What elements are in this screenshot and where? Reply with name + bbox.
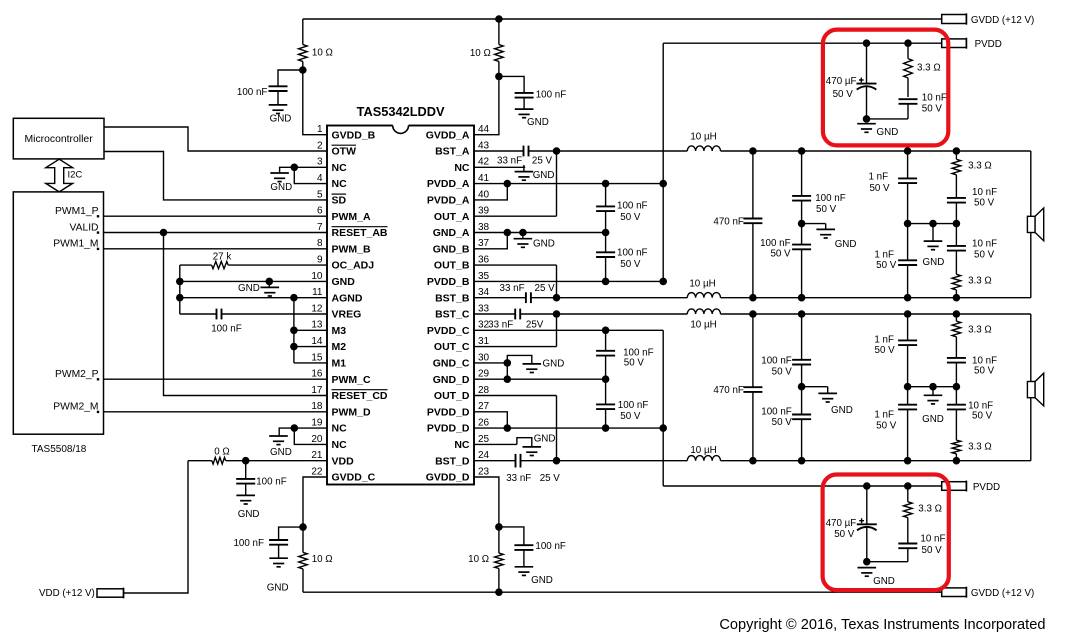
label 100 nF 50 V (GND-PVDD_B) (617, 248, 648, 271)
ground (GND_A/GND_B) (514, 233, 555, 250)
pin 43 BST_A (435, 140, 489, 157)
label PVDD bottom (973, 482, 1000, 493)
node BST_D junction (553, 457, 561, 465)
svg-text:GND: GND (533, 239, 555, 250)
svg-text:5: 5 (317, 189, 323, 200)
label 33 nF 25 V (BST_A) (497, 156, 552, 167)
TAS5508/18 box (13, 192, 103, 434)
wire OUT_C pin 31 (474, 346, 557, 348)
pin 8 PWM_B (317, 238, 371, 255)
svg-text:11: 11 (312, 287, 323, 298)
wire GVDD +12V top rail (303, 18, 942, 20)
resistor 3.3 Ω (OUT_A zobel) (952, 151, 961, 198)
pin 35 PVDD_B (427, 271, 490, 288)
svg-text:GND: GND (332, 276, 356, 288)
svg-text:30: 30 (478, 352, 490, 363)
pin 2 OTW (317, 140, 356, 157)
svg-text:BST_B: BST_B (435, 292, 470, 304)
svg-text:17: 17 (311, 385, 323, 396)
node GND_C tie (504, 359, 512, 367)
svg-text:50 V: 50 V (875, 345, 896, 356)
resistor 3.3 Ω (OUT_C zobel) (952, 314, 961, 358)
svg-text:VDD (+12 V): VDD (+12 V) (39, 588, 95, 599)
op-amp U1 TAS5342LDDV body (327, 126, 474, 485)
label 10 nF 50 V (OUT_C zobel) (972, 356, 997, 377)
svg-text:PWM1_P: PWM1_P (55, 206, 99, 217)
svg-text:25V: 25V (526, 320, 544, 331)
node OUT_C 470nF (749, 310, 757, 318)
svg-text:1 nF: 1 nF (874, 250, 894, 261)
svg-text:26: 26 (478, 418, 490, 429)
resistor 3.3 Ω (OUT_D zobel) (952, 440, 961, 461)
pin 3 NC (317, 157, 347, 174)
wire GND_D pin 29 (474, 378, 606, 380)
wire speaker A/B bottom (1030, 233, 1032, 298)
wire VALID to RESET_CD pin 17 (164, 233, 328, 396)
svg-text:PVDD_A: PVDD_A (427, 178, 470, 190)
svg-text:AGND: AGND (332, 292, 363, 304)
inductor 10 µH (OUT_D) (557, 456, 1031, 461)
node PVDD_B mid-cap tap (602, 278, 610, 286)
svg-text:NC: NC (454, 439, 470, 451)
microcontroller box (13, 118, 104, 159)
node GND_D mid-cap tap (602, 375, 610, 383)
node 1nF mid (C/D) (904, 383, 912, 391)
pin 22 GVDD_C (311, 466, 375, 483)
ground (pin 42) (515, 170, 555, 181)
pin 44 GVDD_A (426, 124, 490, 141)
wire PVDD_D pin 27 tie (474, 412, 507, 428)
svg-text:GND: GND (238, 283, 260, 294)
svg-text:50 V: 50 V (869, 183, 890, 194)
svg-text:100 nF: 100 nF (815, 193, 846, 204)
label 100 nF (GVDD_A) (536, 90, 567, 101)
wire PVDD vertical bottom (662, 330, 664, 486)
svg-text:10 nF: 10 nF (972, 239, 997, 250)
node GND tap pin 10 (266, 278, 274, 286)
ground (A/B filter mid) (802, 224, 857, 250)
wire M3 pin 13 (294, 329, 327, 331)
node GVDD rail / GVDD_A resistor tap (495, 15, 503, 23)
svg-text:1: 1 (317, 124, 323, 135)
wire GVDD bottom rail (303, 591, 942, 593)
node M2 (290, 343, 298, 351)
label 100 nF (VREG) (211, 324, 242, 335)
label 100 nF (GVDD_B) (237, 87, 268, 98)
svg-text:GND: GND (877, 127, 899, 138)
label 1 nF 50 V (OUT_D) (874, 410, 896, 432)
wire speaker C/D bottom (1030, 398, 1032, 461)
svg-text:50 V: 50 V (624, 358, 645, 369)
svg-text:M3: M3 (332, 325, 347, 337)
svg-text:3.3 Ω: 3.3 Ω (968, 276, 992, 287)
ground (VDD cap) (236, 495, 259, 520)
svg-text:GND_C: GND_C (433, 358, 470, 370)
label 10 Ω (GVDD_A) (470, 48, 491, 59)
label 10 µH (OUT_C) (690, 319, 716, 330)
svg-text:10 nF: 10 nF (920, 534, 945, 545)
terminal GVDD (+12 V) top (942, 13, 967, 24)
node mid ground tap (C/D) (929, 383, 937, 391)
node M3 (290, 327, 298, 335)
svg-text:100 nF: 100 nF (618, 400, 649, 411)
ground (pin 25) (517, 434, 556, 456)
label 470 nF (A/B) (713, 217, 744, 228)
node PVDD_D mid-cap tap (602, 424, 610, 432)
capacitor 100 nF 50 V (OUT_A) (792, 151, 811, 224)
svg-text:100 nF: 100 nF (237, 87, 268, 98)
svg-text:50 V: 50 V (974, 250, 995, 261)
svg-text:1 nF: 1 nF (874, 410, 894, 421)
pin 32 PVDD_C (427, 320, 490, 337)
capacitor 100 nF (GVDD_D) (499, 527, 534, 567)
svg-text:PWM2_P: PWM2_P (55, 369, 99, 380)
node 3.3Ω top tap (904, 39, 912, 47)
pin 27 PVDD_D (427, 401, 490, 418)
svg-text:GND: GND (267, 583, 289, 594)
node 1nF mid (A/B) (904, 220, 912, 228)
capacitor 100 nF (VREG) (180, 309, 327, 320)
resistor 10 Ω (GVDD_B) (299, 19, 308, 70)
node GVDD_C branch (299, 523, 307, 531)
svg-text:33 nF: 33 nF (506, 473, 531, 484)
node RC mid (A/B) (953, 220, 961, 228)
pin 41 PVDD_A (427, 173, 490, 190)
capacitor 33 nF 25 V (BST_D) (474, 454, 557, 468)
ground (GND_C) (507, 355, 564, 372)
svg-text:10 Ω: 10 Ω (470, 48, 491, 59)
wire speaker C/D top (1030, 314, 1032, 382)
svg-text:2: 2 (317, 140, 323, 151)
svg-text:GND_B: GND_B (433, 243, 470, 255)
svg-text:PWM_A: PWM_A (332, 211, 372, 223)
label 33 nF 25 V (BST_B) (500, 283, 556, 294)
svg-text:GND: GND (270, 114, 292, 125)
terminal PVDD top (942, 38, 967, 49)
node GND_A ground tap (519, 229, 527, 237)
svg-text:100 nF: 100 nF (211, 324, 242, 335)
ground (GVDD_D cap) (515, 567, 553, 586)
svg-text:GVDD_A: GVDD_A (426, 129, 470, 141)
node mid ground tap (A/B) (929, 220, 937, 228)
svg-text:8: 8 (317, 238, 323, 249)
svg-text:15: 15 (311, 352, 323, 363)
svg-text:3.3 Ω: 3.3 Ω (968, 161, 992, 172)
svg-text:TAS5342LDDV: TAS5342LDDV (357, 104, 445, 119)
svg-text:100 nF: 100 nF (761, 406, 792, 417)
node OUT_D 100nF (798, 457, 806, 465)
svg-text:25: 25 (478, 434, 490, 445)
svg-text:39: 39 (478, 206, 490, 217)
capacitor 10 nF 50 V (OUT_D zobel) (947, 387, 966, 441)
wire GVDD_A to pin 44 (474, 76, 499, 134)
svg-text:OTW: OTW (332, 146, 357, 158)
node GND_D tie (504, 375, 512, 383)
svg-text:PWM1_M: PWM1_M (53, 239, 98, 250)
svg-text:PVDD_D: PVDD_D (427, 406, 470, 418)
svg-text:GND: GND (922, 414, 944, 425)
highlight box (PVDD decoupling top) (823, 30, 948, 146)
node OUT_C RC (953, 310, 961, 318)
svg-text:23: 23 (478, 466, 490, 477)
svg-text:TAS5508/18: TAS5508/18 (32, 444, 87, 455)
capacitor 33 nF 25 V (BST_B) (474, 292, 557, 303)
pin 39 OUT_A (434, 206, 490, 223)
wire PWM2_P to pin 16 (104, 378, 328, 380)
node OUT_C 100nF (798, 310, 806, 318)
label 10 Ω (GVDD_C) (312, 554, 333, 565)
resistor 3.3 Ω (OUT_B zobel) (952, 274, 961, 297)
label 470 µF (top) (826, 76, 857, 100)
pin 6 PWM_A (317, 206, 371, 223)
svg-text:10 Ω: 10 Ω (312, 48, 333, 59)
pin 26 PVDD_D (427, 418, 490, 435)
wire VDD to connector (124, 461, 189, 593)
svg-text:50 V: 50 V (833, 89, 854, 100)
node RC mid (C/D) (953, 383, 961, 391)
svg-text:1 nF: 1 nF (868, 172, 888, 183)
svg-text:16: 16 (311, 369, 323, 380)
label 33 nF 25 V (BST_D) (506, 473, 560, 484)
svg-text:GND: GND (543, 358, 565, 369)
svg-text:100 nF: 100 nF (536, 90, 567, 101)
label 100 nF 50 V (OUT_A) (815, 193, 846, 215)
capacitor 100 nF 50 V (PVDD_A-GND) (596, 184, 615, 233)
capacitor 33 nF 25V (BST_C) (474, 309, 557, 320)
svg-text:PVDD: PVDD (973, 482, 1000, 493)
node OUT_A RC (953, 147, 961, 155)
capacitor 100 nF 50 V (OUT_C) (792, 314, 811, 387)
svg-text:38: 38 (478, 222, 490, 233)
svg-text:43: 43 (478, 140, 490, 151)
ground (pin 10) (238, 281, 279, 296)
svg-text:3.3 Ω: 3.3 Ω (968, 442, 992, 453)
wire OUT_C to BST_C (556, 314, 558, 347)
capacitor 470 nF (A/B) (743, 151, 762, 298)
label PWM2_M (53, 402, 99, 414)
label TAS5342LDDV (357, 104, 445, 119)
svg-text:GND: GND (835, 239, 857, 250)
capacitor 100 nF 50 V (GND-PVDD_B) (596, 233, 615, 282)
svg-text:OUT_B: OUT_B (434, 260, 470, 272)
label 100 nF 50 V (GND-PVDD_D) (618, 400, 649, 422)
svg-text:GND_A: GND_A (433, 227, 470, 239)
wire GND_C pin 30 tie (474, 363, 507, 379)
node 470µF top bottom (863, 115, 871, 123)
label 470 µF (bottom) (826, 518, 857, 540)
svg-text:18: 18 (311, 401, 323, 412)
ground (GVDD_A cap) (515, 109, 549, 128)
svg-text:VDD: VDD (332, 455, 355, 467)
svg-text:100 nF: 100 nF (617, 201, 648, 212)
svg-text:470 nF: 470 nF (713, 385, 744, 396)
svg-text:33 nF: 33 nF (488, 320, 513, 331)
wire PWM2_M to pin 18 (104, 411, 328, 413)
pin 23 GVDD_D (426, 466, 490, 483)
node OUT_A 1nF (904, 147, 912, 155)
node pin10 left (176, 278, 184, 286)
wire PVDD_D pin 26 (474, 427, 663, 429)
wire 470µF/10nF bottom tie (bottom) (867, 561, 908, 563)
inductor 10 µH (OUT_B) (557, 293, 1031, 298)
svg-text:12: 12 (311, 303, 323, 314)
pin 42 NC (454, 157, 489, 174)
capacitor 33 nF 25 V (BST_A) (474, 146, 557, 157)
svg-text:4: 4 (317, 173, 323, 184)
svg-text:20: 20 (311, 434, 323, 445)
label PWM1_P (55, 206, 99, 218)
svg-text:27 k: 27 k (213, 251, 232, 262)
ground (A/B mid RC) (923, 224, 945, 268)
svg-text:GND: GND (527, 117, 549, 128)
label 100 nF (GVDD_C) (233, 538, 264, 549)
wire GND_B pin 37 tie (474, 233, 507, 249)
wire OUT_B to BST_B (556, 265, 558, 298)
label 33 nF 25V (BST_C) (488, 320, 544, 331)
pin 1 GVDD_B (317, 124, 376, 141)
pin 37 GND_B (433, 238, 490, 255)
svg-text:10 µH: 10 µH (690, 132, 716, 143)
label 3.3 Ω (OUT_A zobel) (968, 161, 992, 172)
wire M2 pin 14 (294, 346, 327, 348)
svg-text:50 V: 50 V (620, 212, 641, 223)
node NC pins 19/20 (291, 424, 299, 432)
wire OUT_D pin 28 (474, 395, 557, 397)
svg-text:GVDD_C: GVDD_C (332, 472, 376, 484)
speaker (channel A/B) (1027, 208, 1043, 241)
capacitor 10 nF 50 V (top snubber) (899, 99, 918, 119)
label VALID (70, 222, 100, 233)
svg-text:GND: GND (238, 509, 260, 520)
capacitor 470 nF (C/D) (743, 314, 762, 461)
svg-text:41: 41 (478, 173, 490, 184)
svg-text:PWM_D: PWM_D (332, 406, 372, 418)
label 3.3 Ω (OUT_B zobel) (968, 276, 992, 287)
pin 12 VREG (311, 303, 361, 320)
svg-text:9: 9 (317, 255, 323, 266)
svg-text:M2: M2 (332, 341, 347, 353)
label 3.3 Ω (bottom snubber) (918, 504, 942, 515)
label 10 µH (OUT_A) (690, 132, 716, 143)
pin 4 NC (317, 173, 347, 190)
svg-text:100 nF: 100 nF (256, 476, 287, 487)
svg-text:GND: GND (531, 575, 553, 586)
node PVDD_A tie (504, 180, 512, 188)
wire GVDD_C (303, 477, 327, 527)
capacitor 100 nF (GVDD_A) (499, 76, 534, 109)
svg-text:10 nF: 10 nF (972, 187, 997, 198)
wire PVDD bottom rail (663, 485, 942, 487)
pin 20 NC (311, 434, 347, 451)
capacitor 100 nF (GVDD_C) (269, 527, 303, 558)
svg-text:10 Ω: 10 Ω (312, 554, 333, 565)
pin 16 PWM_C (311, 369, 371, 386)
node 100nF mid (C/D) (798, 383, 806, 391)
ground (GVDD_B cap) (269, 105, 292, 125)
node OUT_A 470nF (749, 147, 757, 155)
svg-text:36: 36 (478, 255, 490, 266)
pin 14 M2 (311, 336, 346, 353)
node VDD cap tap (242, 457, 250, 465)
node GND_A tie (504, 229, 512, 237)
label 3.3 Ω (OUT_C zobel) (968, 325, 992, 336)
svg-text:BST_D: BST_D (435, 455, 470, 467)
wire BST_A to OUT_A (556, 151, 558, 216)
ground (top PVDD decoupling) (857, 124, 898, 138)
svg-text:Copyright © 2016, Texas Instru: Copyright © 2016, Texas Instruments Inco… (719, 617, 1045, 633)
I2C double arrow (46, 159, 73, 192)
svg-text:50 V: 50 V (922, 545, 943, 556)
ground (pins 3/4) (270, 167, 294, 193)
svg-text:470 nF: 470 nF (713, 217, 744, 228)
svg-text:I2C: I2C (68, 170, 83, 181)
svg-text:100 nF: 100 nF (535, 541, 566, 552)
svg-text:100 nF: 100 nF (760, 238, 791, 249)
ground (C/D mid RC) (922, 387, 944, 426)
wire GND_A pin 38 (474, 232, 606, 234)
svg-text:3.3 Ω: 3.3 Ω (968, 325, 992, 336)
label 100 nF 50 V (PVDD_A-GND) (617, 201, 648, 224)
ground (GVDD_C cap) (267, 558, 289, 593)
svg-text:6: 6 (317, 206, 323, 217)
svg-text:100 nF: 100 nF (761, 356, 792, 367)
svg-text:44: 44 (478, 124, 490, 135)
capacitor 470 µF 50 V (top electrolytic) (857, 43, 877, 119)
svg-text:14: 14 (311, 336, 323, 347)
label PWM1_M (53, 239, 99, 250)
wire NC pin 19 (294, 427, 327, 429)
svg-text:100 nF: 100 nF (617, 248, 648, 259)
svg-text:RESET_CD: RESET_CD (332, 390, 388, 402)
wire speaker A/B top (1030, 151, 1032, 216)
ground (C/D filter mid) (802, 387, 853, 416)
label VDD (+12 V) (39, 588, 95, 599)
svg-text:M1: M1 (332, 358, 347, 370)
svg-text:Microcontroller: Microcontroller (25, 134, 94, 145)
pin 40 PVDD_A (427, 189, 490, 206)
svg-text:PVDD: PVDD (975, 39, 1002, 50)
capacitor 100 nF 50 V (OUT_B) (792, 224, 811, 298)
svg-text:37: 37 (478, 238, 490, 249)
capacitor 100 nF 50 V (GND-PVDD_D) (596, 379, 615, 428)
svg-text:33: 33 (478, 303, 490, 314)
node PVDD_B vertical end (659, 278, 667, 286)
inductor 10 µH (OUT_C) (557, 309, 1031, 314)
pin 29 GND_D (433, 369, 490, 386)
svg-text:PVDD_C: PVDD_C (427, 325, 470, 337)
wire OC_ADJ to AGND net (179, 265, 181, 314)
svg-text:10 µH: 10 µH (689, 278, 715, 289)
capacitor 10 nF 50 V (OUT_A zobel) (947, 198, 966, 224)
svg-text:13: 13 (311, 320, 323, 331)
svg-text:29: 29 (478, 369, 490, 380)
node NC pins 3/4 (291, 164, 299, 172)
wire 1nF-RC mid tie (C/D) (908, 386, 957, 388)
label 27 k (213, 251, 232, 262)
terminal PVDD bottom (942, 481, 967, 492)
svg-text:50 V: 50 V (620, 259, 641, 270)
svg-text:25 V: 25 V (535, 283, 556, 294)
highlight box (PVDD decoupling bottom) (823, 475, 949, 591)
wire NC pin 3 (294, 166, 327, 168)
svg-text:40: 40 (478, 189, 490, 200)
wire OTW (microcontroller to pin 2) (104, 127, 327, 151)
svg-text:25 V: 25 V (540, 473, 561, 484)
node VALID branch (160, 229, 168, 237)
svg-text:GND: GND (533, 170, 555, 181)
pin 28 OUT_D (434, 385, 490, 402)
wire OUT_D to BST_D (556, 396, 558, 461)
